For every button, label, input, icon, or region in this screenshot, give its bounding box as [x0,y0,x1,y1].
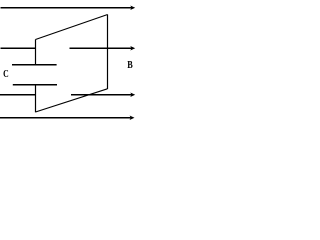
loop top slanted edge [36,15,108,40]
wire field line 3 left segment [0,94,36,96]
loop bottom slanted edge [36,89,108,112]
capacitor C top plate [12,64,57,66]
wire field line 1 (top) [1,7,132,9]
capacitor C bottom plate [13,84,57,86]
loop right vertical edge [107,15,109,90]
loop left edge upper lead to capacitor [35,40,37,66]
wire field line 3 right segment [71,94,132,96]
arrowhead of field line 4 [130,116,135,120]
wire field line 2 right segment [70,47,132,49]
loop left edge lower lead from capacitor [35,85,37,112]
svg-text:B: B [127,59,133,71]
svg-text:C: C [3,68,9,80]
arrowhead of field line 3 [130,93,135,97]
wire field line 2 left segment [1,47,37,49]
arrowhead of field line 2 [130,46,135,50]
arrowhead of field line 1 [130,6,135,10]
wire field line 4 (bottom) [0,117,131,119]
